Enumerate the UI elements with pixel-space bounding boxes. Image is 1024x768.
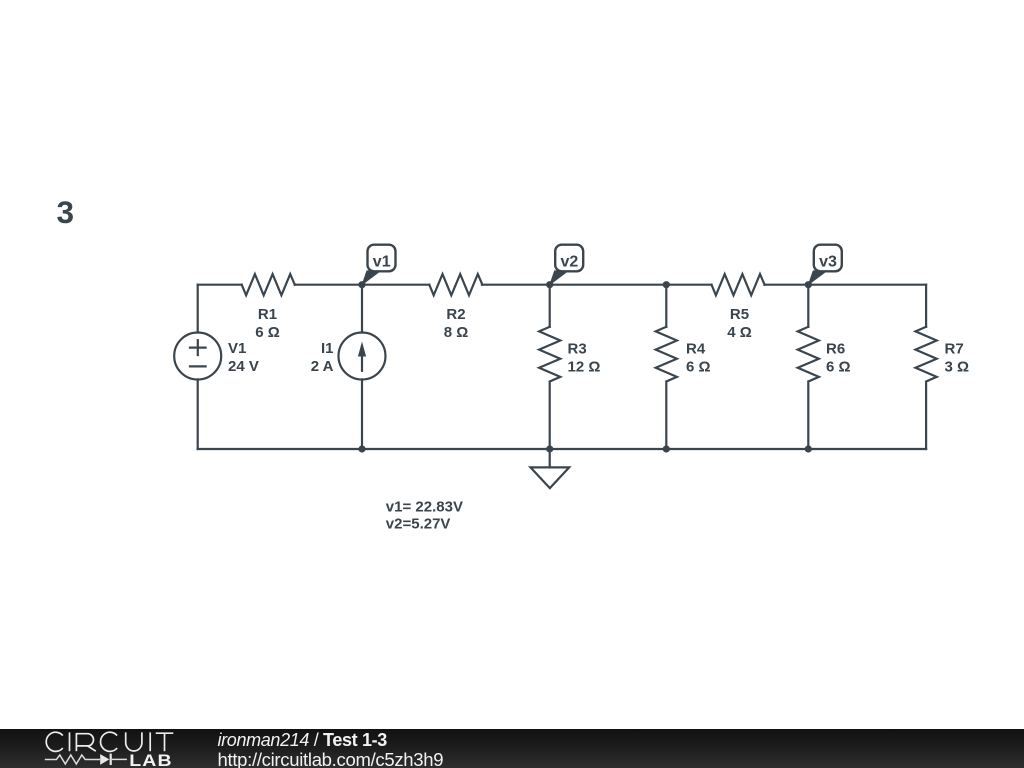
svg-text:v2: v2: [561, 253, 579, 270]
svg-text:R6: R6: [826, 341, 845, 358]
svg-text:http://circuitlab.com/c5zh3h9: http://circuitlab.com/c5zh3h9: [218, 749, 444, 768]
svg-text:v2=5.27V: v2=5.27V: [386, 516, 451, 533]
svg-text:3: 3: [57, 194, 75, 230]
svg-text:R7: R7: [945, 341, 964, 358]
svg-text:6 Ω: 6 Ω: [826, 359, 851, 376]
svg-text:6 Ω: 6 Ω: [255, 324, 280, 341]
svg-text:2 A: 2 A: [311, 358, 334, 375]
svg-text:12 Ω: 12 Ω: [568, 359, 601, 376]
svg-text:R3: R3: [568, 341, 587, 358]
svg-text:v1: v1: [373, 253, 391, 270]
svg-text:I1: I1: [321, 340, 334, 357]
svg-text:V1: V1: [228, 340, 246, 357]
svg-text:3 Ω: 3 Ω: [945, 359, 970, 376]
svg-text:v1= 22.83V: v1= 22.83V: [386, 499, 463, 516]
svg-text:v3: v3: [819, 253, 837, 270]
svg-text:ironman214 / Test 1-3: ironman214 / Test 1-3: [218, 730, 388, 750]
svg-text:R5: R5: [730, 306, 749, 323]
svg-text:4 Ω: 4 Ω: [727, 324, 752, 341]
svg-text:R2: R2: [446, 306, 465, 323]
svg-text:6 Ω: 6 Ω: [686, 359, 711, 376]
svg-text:24 V: 24 V: [228, 358, 259, 375]
svg-text:R4: R4: [686, 341, 706, 358]
svg-text:R1: R1: [258, 306, 277, 323]
svg-text:LAB: LAB: [129, 751, 173, 768]
svg-text:8 Ω: 8 Ω: [444, 324, 469, 341]
